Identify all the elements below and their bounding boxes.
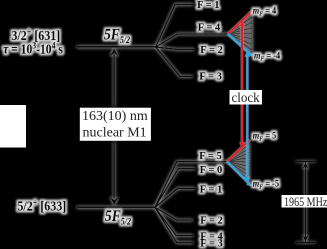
upper Zeeman sublevel fan (mF = 3..-3) <box>228 17 252 50</box>
blue Zeeman diagonal upper (to mF=-4) <box>228 34 252 56</box>
red Zeeman diagonal lower (to mF=5) <box>227 140 250 162</box>
svg-text:F = 2: F = 2 <box>200 45 223 56</box>
svg-text:F = 1: F = 1 <box>200 185 223 196</box>
1965 MHz bracket line <box>305 162 307 243</box>
white box at left edge <box>0 105 26 148</box>
bracket down arrowhead <box>302 235 308 242</box>
svg-text:F = 1: F = 1 <box>197 0 220 11</box>
blue down arrowhead <box>245 177 251 184</box>
svg-text:F = 2: F = 2 <box>200 215 223 226</box>
blue Zeeman diagonal lower (to mF=-5) <box>227 162 250 185</box>
wire ground fan to F=5 level (continues to Zeeman apex) <box>155 162 227 208</box>
lower Zeeman wedge shading <box>227 141 250 183</box>
svg-text:163(10) nm: 163(10) nm <box>82 109 148 124</box>
wire ground fan to F=0 level <box>155 169 195 208</box>
bracket up arrowhead <box>302 162 308 169</box>
white label box 163(10) nm nuclear M1 <box>80 108 151 141</box>
163 nm transition arrow shaft (upper segment) <box>113 54 115 107</box>
lower Zeeman sublevel fan (mF = 4..-4) <box>227 144 249 179</box>
svg-text:F = 5: F = 5 <box>199 151 222 162</box>
163 nm transition arrow shaft (lower segment) <box>113 142 115 199</box>
dotted sublevel column upper <box>251 15 253 53</box>
svg-text:F = 4: F = 4 <box>198 23 221 34</box>
bracket top cap <box>296 161 316 163</box>
white label box clock <box>230 90 263 105</box>
dotted sublevel column lower <box>248 144 250 181</box>
ground state level line 5/2+[633] <box>77 206 155 208</box>
wire isomer fan to F=3 level <box>156 47 193 76</box>
red Zeeman diagonal upper (to mF=4) <box>228 11 252 34</box>
wire ground fan to F=3 level <box>155 207 193 242</box>
bracket bottom cap <box>296 242 316 244</box>
wire isomer fan to F=1 level <box>156 5 193 48</box>
blue up arrowhead <box>245 50 251 57</box>
svg-text:1965 MHz: 1965 MHz <box>284 196 327 209</box>
red clock transition vertical <box>241 24 243 145</box>
isomer state level line 3/2+[631] <box>77 46 156 48</box>
svg-text:F = 0: F = 0 <box>200 165 223 176</box>
svg-text:clock: clock <box>232 90 260 106</box>
svg-text:F = 3: F = 3 <box>200 238 223 249</box>
red down arrowhead <box>239 142 245 149</box>
wire isomer fan to F=4 level (continues to Zeeman apex) <box>156 34 228 47</box>
wire ground fan to F=2 level <box>155 207 193 220</box>
red up arrowhead <box>239 20 245 27</box>
blue diagonal end arrowhead <box>246 182 251 186</box>
163 nm arrowhead up at isomer level <box>110 48 119 56</box>
upper Zeeman wedge shading <box>228 12 252 55</box>
wire ground fan to F=4 level <box>155 207 193 235</box>
wire isomer fan to F=2 level <box>156 47 194 49</box>
white label box 1965 MHz <box>282 195 327 208</box>
wire ground fan to F=1 level <box>155 188 195 207</box>
svg-text:F = 3: F = 3 <box>199 72 222 83</box>
blue clock transition vertical <box>246 54 248 180</box>
svg-text:5/2+ [633]: 5/2+ [633] <box>17 197 66 214</box>
svg-text:nuclear M1: nuclear M1 <box>83 126 147 141</box>
163 nm arrowhead down at ground level <box>110 197 119 205</box>
